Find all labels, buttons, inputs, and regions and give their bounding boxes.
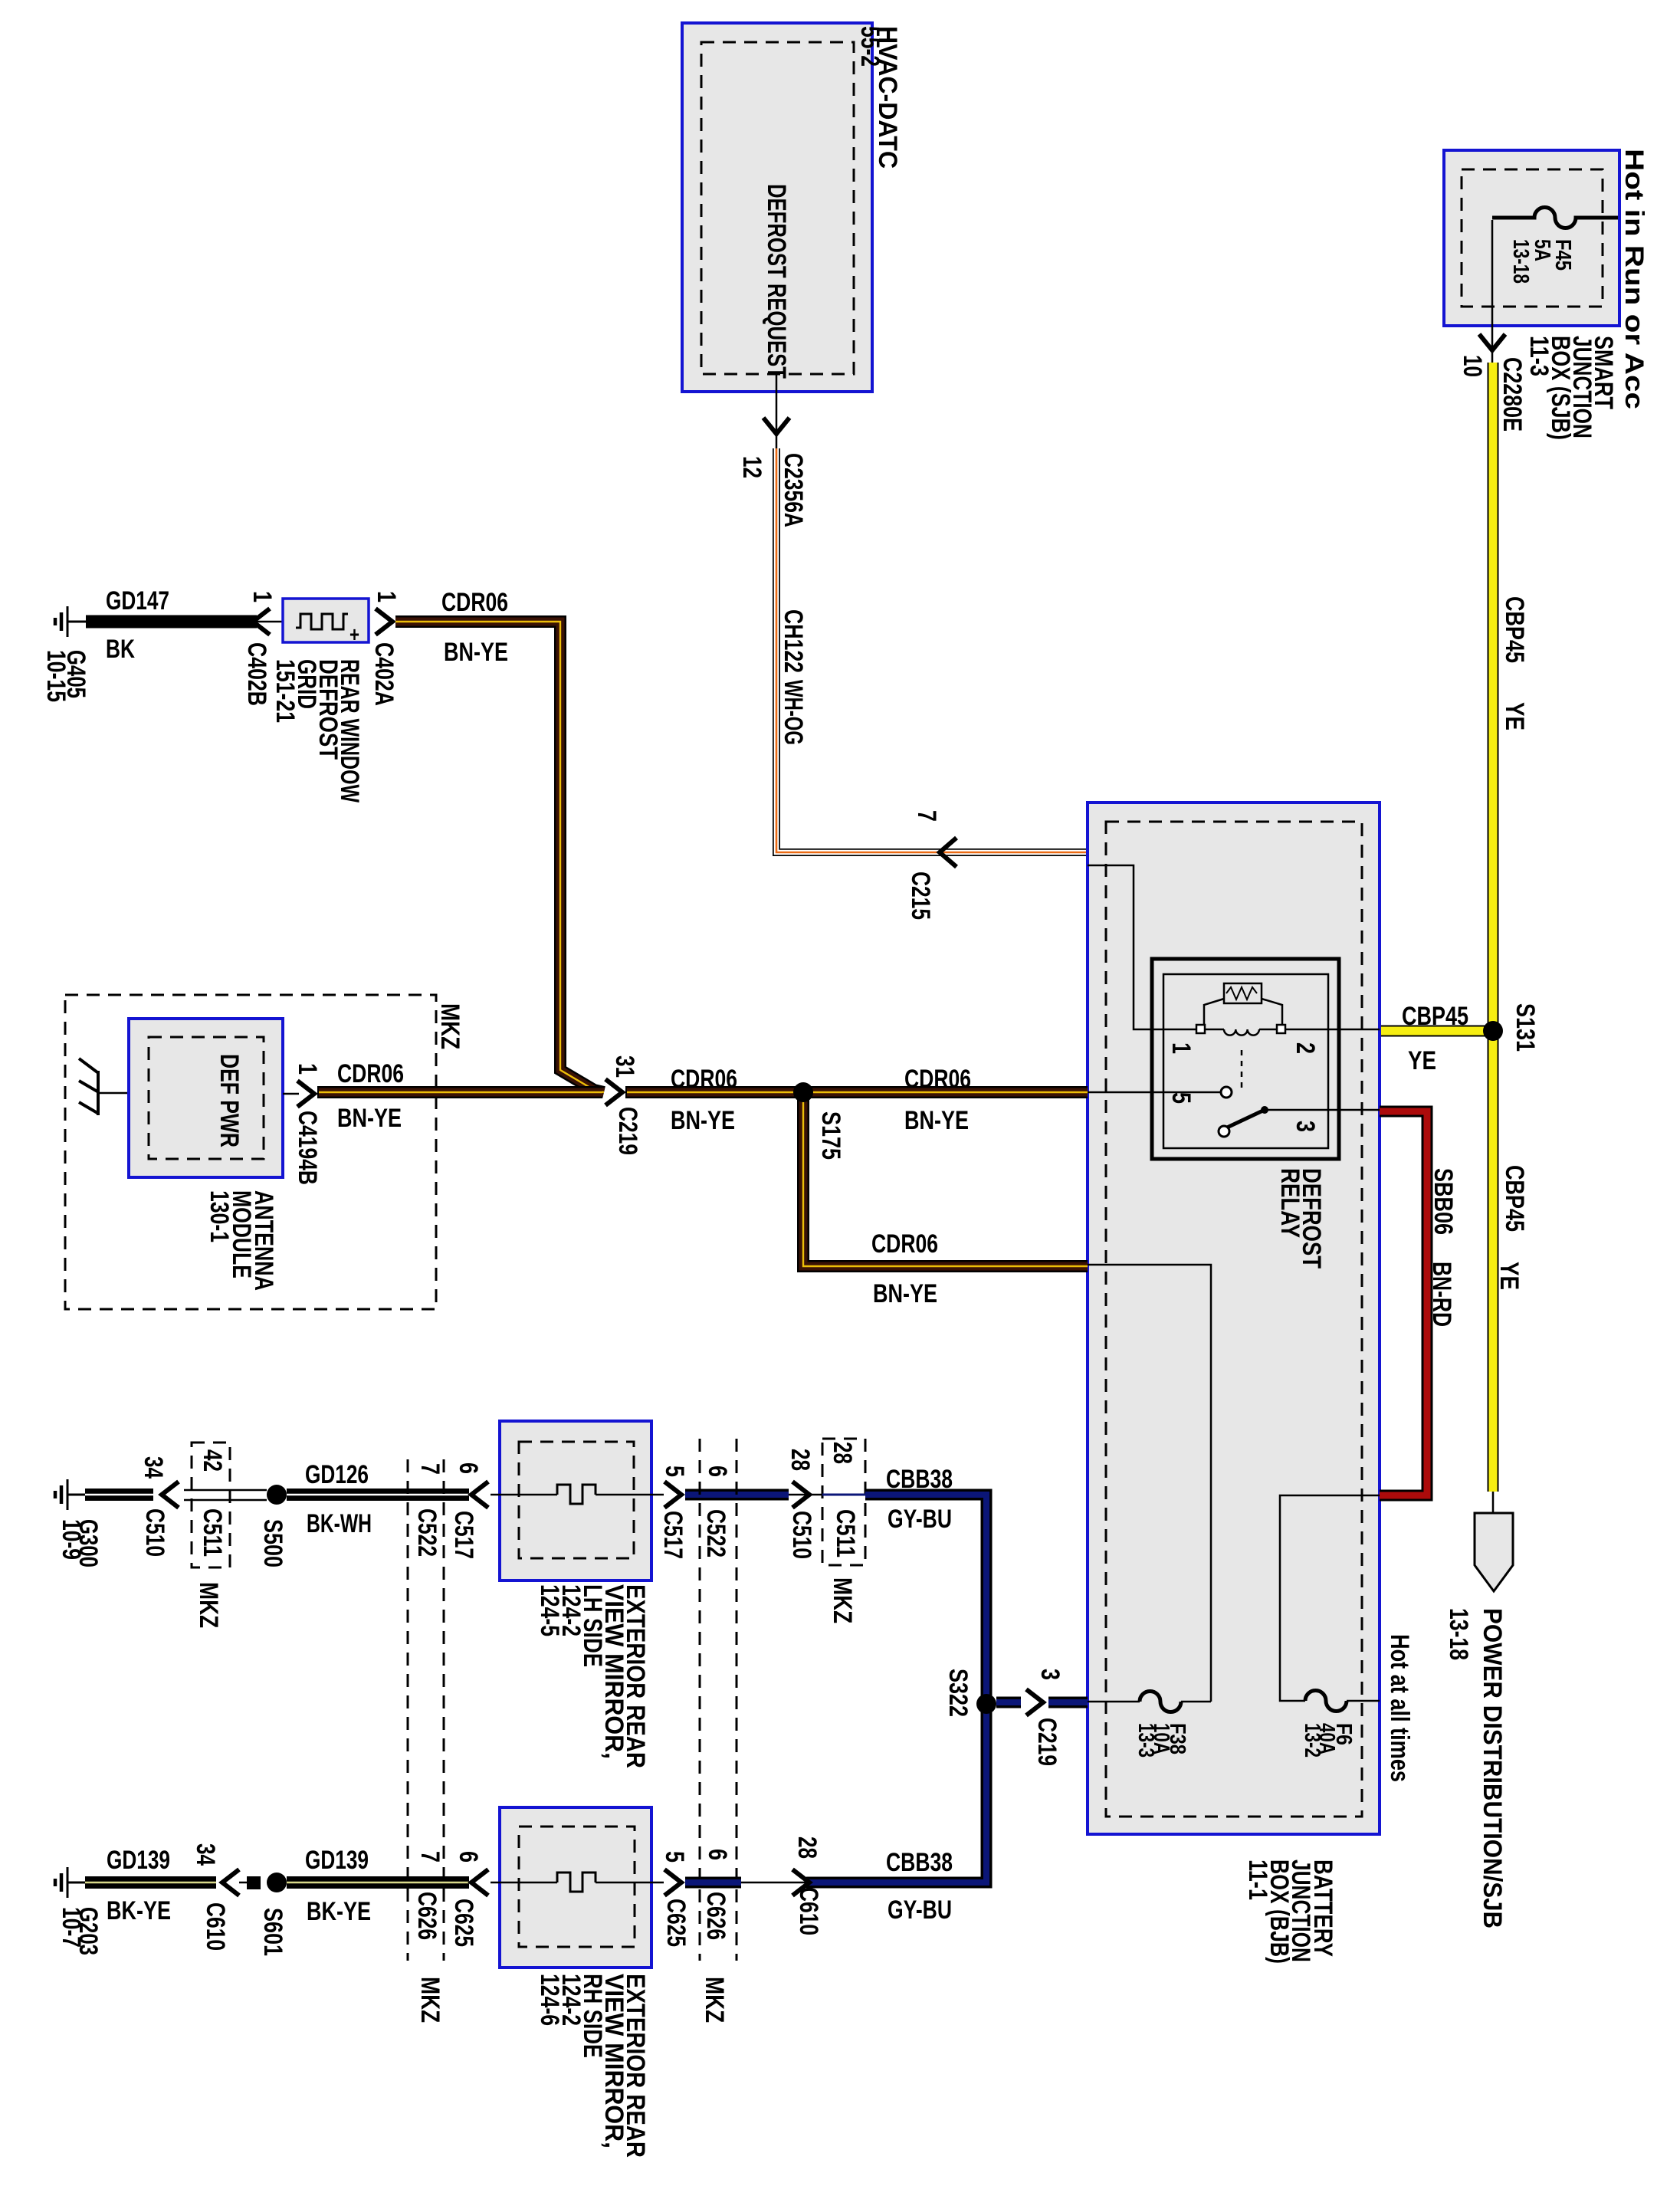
ground G300 [55, 1479, 103, 1567]
connector arrow C625 pin 6 [449, 1851, 488, 1947]
splice node S500 [258, 1485, 287, 1567]
connector arrow C2280E pin 10 [1458, 334, 1527, 432]
module EXTERIOR REAR VIEW MIRROR LH SIDE [500, 1421, 651, 1768]
svg-text:5: 5 [1166, 1092, 1196, 1104]
svg-text:GY-BU: GY-BU [888, 1505, 952, 1534]
connector arrow C4194B pin 1 [283, 1063, 322, 1185]
svg-text:BK-YE: BK-YE [107, 1896, 171, 1925]
svg-text:2: 2 [1291, 1042, 1320, 1054]
svg-text:SBB06: SBB06 [1429, 1168, 1458, 1235]
connector arrow C517 pin 5 [658, 1466, 689, 1559]
svg-text:12: 12 [737, 456, 766, 478]
connector box C511 pin 28 MKZ [822, 1439, 865, 1623]
svg-text:YE: YE [1500, 702, 1529, 730]
svg-text:CDR06: CDR06 [337, 1059, 404, 1088]
svg-text:C510: C510 [140, 1508, 169, 1557]
svg-text:C625: C625 [449, 1899, 478, 1947]
splice node S131 [1483, 1003, 1540, 1052]
wire CBP45 YE stub from BJB to S131 [1380, 1002, 1493, 1075]
svg-text:RELAY: RELAY [1275, 1168, 1304, 1238]
svg-text:YE: YE [1495, 1262, 1524, 1290]
RH mirror heater element [491, 1873, 664, 1892]
component REAR WINDOW DEFROST GRID [271, 599, 369, 803]
svg-text:55-2: 55-2 [855, 26, 884, 67]
connector arrow C402B pin 1 [242, 591, 283, 706]
svg-text:S175: S175 [816, 1111, 845, 1160]
stub S322 to BJB [996, 1697, 1021, 1708]
svg-text:S500: S500 [258, 1519, 287, 1567]
LH mirror heater element [491, 1485, 664, 1504]
fuse F6 40A [1300, 1691, 1356, 1758]
terminal block at S601 [239, 1876, 261, 1889]
svg-text:C610: C610 [201, 1902, 230, 1951]
svg-text:28: 28 [792, 1836, 822, 1859]
wire pin 2 to CBP45 stub [1285, 1029, 1380, 1031]
connector lines C522/C626 right [700, 1439, 737, 2023]
svg-text:BN-YE: BN-YE [444, 638, 508, 667]
svg-text:6: 6 [454, 1851, 483, 1863]
svg-text:28: 28 [828, 1442, 857, 1464]
ground G203 [55, 1867, 103, 1955]
fuse F45 5A [1492, 208, 1618, 363]
svg-text:1: 1 [293, 1063, 322, 1075]
svg-text:BN-YE: BN-YE [671, 1106, 735, 1135]
svg-text:124-5: 124-5 [535, 1584, 564, 1636]
svg-text:CBB38: CBB38 [886, 1465, 953, 1494]
svg-text:S322: S322 [943, 1669, 973, 1717]
svg-text:7: 7 [912, 810, 941, 822]
connector box C511 pin 42 [192, 1443, 230, 1628]
svg-text:C517: C517 [449, 1511, 478, 1559]
connector arrow C610 pin 34 [201, 1869, 239, 1951]
svg-text:MKZ: MKZ [828, 1577, 857, 1623]
svg-text:31: 31 [610, 1055, 639, 1078]
svg-text:11-3: 11-3 [1524, 336, 1554, 376]
svg-text:7: 7 [415, 1463, 445, 1475]
svg-text:5: 5 [660, 1851, 689, 1863]
wire CDR06 BN-YE from grid [395, 588, 604, 1092]
svg-text:CDR06: CDR06 [441, 588, 508, 617]
svg-text:BK-WH: BK-WH [307, 1509, 372, 1538]
svg-text:10: 10 [1458, 355, 1487, 377]
svg-text:MKZ: MKZ [194, 1582, 223, 1628]
wire CDR06 BN-YE branch from S175 to BJB fuse F38 [803, 1092, 1088, 1308]
relay actuator dashed link [1241, 1050, 1243, 1091]
svg-text:GD139: GD139 [107, 1846, 170, 1875]
svg-text:10-9: 10-9 [57, 1519, 86, 1560]
module HVAC-DATC (DEFROST REQUEST) [682, 23, 902, 392]
svg-text:124-6: 124-6 [535, 1974, 564, 2026]
ground G405 [41, 606, 90, 702]
wire CBP45 YE vertical [1493, 363, 1529, 1492]
module DEF PWR (ANTENNA MODULE) [129, 1019, 283, 1291]
connector arrow C219 pin 3 [1026, 1669, 1065, 1766]
svg-text:28: 28 [786, 1449, 815, 1471]
svg-text:C510: C510 [787, 1511, 816, 1559]
svg-text:C625: C625 [661, 1899, 691, 1947]
svg-text:BN-YE: BN-YE [337, 1104, 402, 1133]
thin wire through C511 [184, 1490, 267, 1500]
svg-text:CBB38: CBB38 [886, 1848, 953, 1877]
svg-text:C517: C517 [658, 1511, 687, 1559]
svg-text:11-1: 11-1 [1243, 1859, 1272, 1900]
connector arrow C402A pin 1 [369, 591, 401, 706]
wire CBB38 GY-BU to S322 [806, 1465, 986, 1925]
svg-text:C2280E: C2280E [1498, 357, 1527, 432]
relay switch common pin 5 [1088, 1087, 1232, 1104]
svg-text:CDR06: CDR06 [671, 1065, 737, 1094]
svg-text:1: 1 [1166, 1042, 1196, 1054]
svg-text:1: 1 [372, 591, 401, 602]
svg-text:6: 6 [703, 1849, 732, 1860]
splice node S601 [258, 1873, 287, 1956]
svg-text:3: 3 [1291, 1121, 1320, 1132]
svg-text:6: 6 [454, 1462, 483, 1474]
label Hot at all times [1385, 1634, 1414, 1782]
svg-text:C2356A: C2356A [779, 453, 808, 527]
svg-text:130-1: 130-1 [205, 1190, 234, 1242]
svg-text:BK-YE: BK-YE [307, 1897, 371, 1926]
wire to C510 BK-WH [85, 1456, 168, 1495]
module EXTERIOR REAR VIEW MIRROR RH SIDE [500, 1807, 651, 2158]
module SMART JUNCTION BOX (SJB) [1444, 149, 1649, 440]
svg-text:MKZ: MKZ [435, 1003, 464, 1049]
relay resistor [1204, 983, 1282, 1025]
wire CBB38 GY-BU RH [685, 1877, 806, 1889]
svg-text:C402A: C402A [369, 642, 399, 706]
svg-text:C4194B: C4194B [293, 1111, 322, 1185]
connector arrow C510 pin 34 [140, 1482, 179, 1557]
svg-text:+: + [349, 622, 359, 646]
svg-text:C219: C219 [613, 1107, 642, 1155]
svg-text:34: 34 [191, 1843, 220, 1866]
stub C219 to BJB edge [1048, 1697, 1088, 1708]
svg-text:CBP45: CBP45 [1402, 1002, 1468, 1031]
svg-text:42: 42 [198, 1449, 227, 1472]
svg-text:10-15: 10-15 [41, 650, 71, 702]
wire CH122 WH-OG [776, 448, 1088, 852]
svg-text:GD139: GD139 [305, 1846, 369, 1875]
svg-text:1: 1 [248, 591, 277, 602]
svg-text:DEFROST REQUEST: DEFROST REQUEST [762, 184, 791, 379]
wire exit from HVAC-DATC [776, 374, 778, 448]
relay K1 DEFROST RELAY outline [1152, 959, 1339, 1269]
svg-text:34: 34 [139, 1456, 168, 1479]
svg-text:YE: YE [1408, 1046, 1436, 1075]
svg-text:C626: C626 [412, 1892, 441, 1940]
svg-text:13-3: 13-3 [1134, 1723, 1158, 1758]
relay terminal pin 2 [1277, 1025, 1320, 1054]
svg-text:13-18: 13-18 [1508, 239, 1533, 284]
svg-text:13-18: 13-18 [1444, 1608, 1473, 1660]
connector arrow C517 pin 6 [449, 1462, 488, 1559]
svg-text:BN-YE: BN-YE [873, 1279, 937, 1308]
svg-text:GD126: GD126 [305, 1460, 369, 1489]
relay coil between pins 1 and 2 [1205, 1029, 1278, 1036]
svg-text:WH-OG: WH-OG [779, 680, 808, 745]
svg-text:C402B: C402B [242, 642, 271, 706]
svg-text:C511: C511 [198, 1508, 227, 1557]
relay switch arm and pin 3 [1219, 1106, 1380, 1137]
svg-text:CDR06: CDR06 [904, 1065, 971, 1094]
wire CBB38 GY-BU LH [685, 1489, 789, 1501]
svg-text:MKZ: MKZ [415, 1977, 445, 2023]
svg-text:POWER DISTRIBUTION/SJB: POWER DISTRIBUTION/SJB [1478, 1608, 1507, 1928]
svg-text:BK: BK [106, 635, 135, 664]
wire GD139 BK-YE to C610 [85, 1843, 220, 1925]
svg-text:MKZ: MKZ [700, 1977, 729, 2023]
wire CDR06 BN-YE from antenna module [317, 1059, 602, 1133]
svg-text:C219: C219 [1032, 1718, 1061, 1766]
svg-text:5: 5 [660, 1466, 689, 1477]
svg-text:BN-RD: BN-RD [1427, 1262, 1456, 1327]
svg-text:GY-BU: GY-BU [888, 1896, 952, 1925]
svg-text:CH122: CH122 [779, 609, 808, 673]
wire pin 1 feed from C215 [1088, 865, 1197, 1029]
splice node S175 [793, 1082, 845, 1160]
svg-text:C215: C215 [906, 871, 935, 920]
wire CDR06 BN-YE to BJB pin 5 [625, 1065, 1088, 1135]
svg-text:CBP45: CBP45 [1500, 596, 1529, 663]
svg-text:Hot at all times: Hot at all times [1385, 1634, 1414, 1782]
svg-text:13-2: 13-2 [1300, 1723, 1324, 1758]
svg-text:C626: C626 [701, 1892, 730, 1940]
fuse F38 10A feed lines [1088, 1265, 1211, 1702]
dashed harness box MKZ (antenna module) [65, 995, 464, 1309]
connector arrow C625 pin 5 [660, 1851, 691, 1947]
svg-text:CBP45: CBP45 [1500, 1165, 1529, 1232]
svg-text:C610: C610 [794, 1887, 823, 1935]
wire GD147 BK [86, 586, 257, 664]
svg-text:S131: S131 [1511, 1003, 1540, 1052]
connector lines C522/C626 left [408, 1459, 445, 2023]
svg-text:BN-YE: BN-YE [904, 1106, 969, 1135]
svg-text:3: 3 [1035, 1669, 1065, 1680]
wire GD126 BK-WH [287, 1460, 469, 1538]
svg-text:6: 6 [703, 1466, 732, 1477]
svg-text:10-7: 10-7 [57, 1907, 86, 1948]
svg-text:S601: S601 [258, 1908, 287, 1956]
svg-text:Hot in Run or Acc: Hot in Run or Acc [1619, 149, 1649, 409]
connector arrow C215 pin 7 [906, 810, 956, 920]
splice node S322 [943, 1669, 996, 1717]
fuse F38 10A [1134, 1692, 1189, 1758]
off-page arrow POWER DISTRIBUTION/SJB [1444, 1492, 1513, 1928]
module BATTERY JUNCTION BOX (BJB) [1088, 803, 1380, 1964]
svg-text:151-21: 151-21 [271, 659, 300, 723]
antenna symbol [79, 1059, 129, 1115]
wire GD139 BK-YE [287, 1846, 469, 1926]
fuse F6 40A feed lines [1280, 1495, 1380, 1701]
svg-text:C511: C511 [831, 1509, 860, 1557]
svg-text:C522: C522 [701, 1509, 730, 1557]
connector arrow C2356A pin 12 [737, 418, 808, 527]
relay terminal pin 1 [1166, 1025, 1205, 1054]
svg-text:C522: C522 [412, 1508, 441, 1557]
svg-text:GD147: GD147 [106, 586, 169, 615]
wire SBB06 BN-RD [1380, 1111, 1458, 1495]
connector arrow C219 pin 31 [605, 1055, 642, 1155]
connector arrow C610 pin 28 [792, 1836, 823, 1935]
svg-text:DEF PWR: DEF PWR [215, 1054, 244, 1147]
svg-text:7: 7 [415, 1851, 445, 1863]
svg-text:CDR06: CDR06 [871, 1229, 938, 1259]
connector arrow C510 pin 28 [786, 1449, 822, 1559]
